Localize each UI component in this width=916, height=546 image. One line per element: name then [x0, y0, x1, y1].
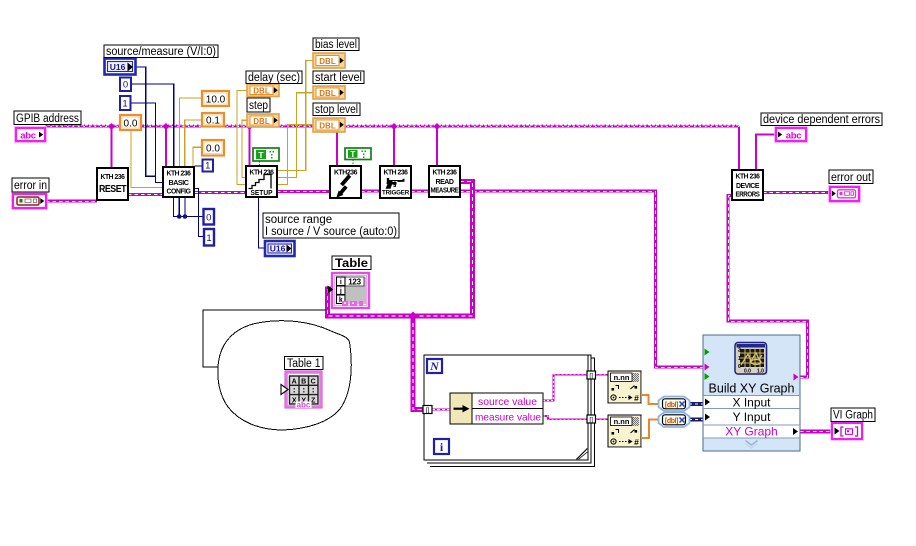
DBL control: start level	[313, 86, 345, 99]
wire: measure value string wire	[543, 416, 587, 419]
DBL constant 0.1	[202, 113, 224, 127]
Table 1 label	[285, 357, 324, 371]
svg-text:[]: []	[589, 417, 593, 424]
svg-text:VI Graph: VI Graph	[833, 410, 873, 422]
svg-text:0.0: 0.0	[206, 144, 220, 155]
U16 constant (source/measure)	[105, 59, 136, 75]
loop tunnels	[423, 371, 596, 424]
svg-text:X Input: X Input	[732, 395, 771, 409]
for loop border	[424, 355, 595, 467]
wire: measurement array (thick) from READ MEASURE to Table and loop	[328, 182, 473, 410]
unbundle by name node	[450, 393, 543, 424]
svg-text:Table 1: Table 1	[287, 358, 321, 370]
DBL constant 0.0 (left)	[120, 115, 141, 130]
svg-text:U16: U16	[110, 62, 126, 72]
n.nn converter 2	[608, 415, 642, 448]
svg-text:[dbl]: [dbl]	[665, 418, 678, 425]
wire: int numeric wires (blue)	[131, 67, 265, 248]
junction dots	[177, 214, 182, 219]
svg-text:N: N	[429, 359, 440, 373]
svg-text:DEVICE: DEVICE	[736, 183, 760, 190]
svg-text:0.0: 0.0	[744, 369, 751, 375]
wire: GPIB drop to BASIC CONFIG	[165, 127, 167, 168]
svg-text:bias level: bias level	[315, 39, 357, 51]
svg-text:CONFIG: CONFIG	[167, 189, 192, 196]
wire: orange DBL wires to converters	[641, 395, 659, 438]
svg-text:DBL: DBL	[253, 87, 270, 96]
VI icon: KTH 236 BASIC CONFIG	[163, 167, 194, 197]
svg-text:A: A	[292, 378, 297, 385]
boolean T constant 1	[253, 148, 279, 161]
wire: GPIB drop to SETUP	[249, 127, 251, 167]
label: stop level	[313, 103, 360, 116]
svg-text:Build XY Graph: Build XY Graph	[709, 382, 795, 396]
svg-text:0.1: 0.1	[206, 116, 220, 127]
wire: GPIB address string wire main run	[45, 127, 739, 171]
svg-text:#: #	[634, 437, 639, 447]
svg-text:i: i	[340, 279, 342, 286]
label: bias level	[313, 38, 359, 51]
svg-text:start level: start level	[315, 72, 362, 84]
svg-text:SETUP: SETUP	[251, 190, 273, 197]
svg-text:[]: []	[426, 407, 430, 414]
page curl on loop	[577, 449, 588, 460]
svg-text:j: j	[339, 288, 342, 295]
DBL control: delay (sec)	[247, 84, 279, 97]
svg-text:[]: []	[589, 373, 593, 380]
svg-text:DBL: DBL	[319, 121, 336, 130]
svg-text:ERRORS: ERRORS	[736, 192, 761, 199]
svg-text:source value: source value	[478, 396, 537, 408]
label: source range	[263, 213, 399, 238]
svg-text:GPIB address: GPIB address	[16, 113, 79, 125]
Table label	[332, 256, 371, 270]
VI icon: KTH236 immediate trigger (lightning)	[330, 166, 361, 198]
svg-text:KTH236: KTH236	[334, 170, 358, 177]
svg-text:1: 1	[122, 99, 127, 110]
Build XY input/output arrows	[705, 349, 710, 356]
VI icon: KTH 236 SETUP	[246, 166, 277, 197]
label: error in	[12, 178, 49, 192]
svg-text:Z: Z	[311, 397, 316, 404]
svg-text:n.nn: n.nn	[614, 373, 630, 382]
svg-text:0: 0	[123, 80, 128, 91]
device dependent errors string indicator	[775, 127, 807, 142]
svg-text:U16: U16	[270, 244, 286, 254]
svg-text:0.0: 0.0	[124, 119, 138, 130]
int constant 0 (below basic config)	[204, 209, 215, 225]
svg-text:Y Input: Y Input	[733, 410, 771, 424]
VI icon: KTH 236 READ MEASURE	[429, 166, 460, 197]
int constant 1 (top)	[120, 96, 131, 110]
svg-text:1.0: 1.0	[757, 369, 764, 375]
svg-text:MEASURE: MEASURE	[431, 188, 460, 195]
VI Graph label	[831, 408, 875, 422]
wire: DBL numeric wires (top constants)	[131, 61, 313, 188]
U16 constant (source range)	[265, 241, 295, 256]
n.nn converter 1 (Fract/Exp String To Number)	[608, 371, 642, 404]
svg-text:[dbl]: [dbl]	[665, 402, 678, 409]
svg-text:T: T	[350, 150, 355, 159]
junction diamond on array wire	[409, 312, 418, 321]
label: device dependent errors	[761, 113, 882, 126]
svg-text:1: 1	[205, 161, 210, 172]
svg-text:abc: abc	[20, 130, 35, 141]
svg-text:RESET: RESET	[99, 183, 127, 195]
wire: dynamic data wires to Build XY Graph	[689, 404, 703, 420]
wire: GPIB drop to TRIGGER	[393, 127, 395, 167]
freehand pencil blob	[203, 310, 351, 430]
svg-text:KTH 236: KTH 236	[384, 170, 409, 177]
wire: error cluster wire	[46, 191, 830, 377]
svg-text:XY Graph: XY Graph	[725, 424, 777, 438]
svg-text:10.0: 10.0	[206, 95, 226, 106]
wire: GPIB drop to RESET	[111, 127, 113, 169]
wire: source value string wire	[543, 375, 608, 420]
svg-text:DBL: DBL	[253, 117, 270, 126]
Table 1 control icon	[281, 371, 322, 410]
svg-text:KTH 236: KTH 236	[433, 170, 458, 177]
svg-text:delay (sec): delay (sec)	[248, 72, 300, 84]
int constant 1 (right of basic config)	[203, 160, 214, 172]
svg-text:#: #	[634, 393, 639, 403]
svg-text:error out: error out	[831, 172, 872, 184]
VI icon: KTH 236 RESET	[97, 168, 128, 200]
svg-text:2: 2	[738, 348, 741, 354]
error in cluster control	[12, 193, 47, 209]
svg-text:step: step	[249, 100, 268, 112]
wire: XY Graph output wire	[800, 430, 832, 434]
svg-text:abc: abc	[297, 401, 311, 410]
DBL control: step	[247, 114, 279, 127]
Table express indicator icon	[328, 273, 370, 308]
VI icon: KTH 236 TRIGGER	[380, 166, 411, 198]
svg-text:KTH 236: KTH 236	[250, 170, 275, 177]
svg-text:123: 123	[348, 278, 361, 287]
junction diamonds on GPIB wire	[108, 123, 441, 130]
svg-text:DBL: DBL	[319, 89, 336, 98]
label: delay (sec)	[246, 71, 302, 84]
int constant 0 (top)	[120, 78, 131, 92]
i terminal	[434, 439, 449, 454]
svg-text:C: C	[311, 378, 316, 385]
svg-text:I source / V source (auto:0): I source / V source (auto:0)	[265, 226, 397, 238]
wire: GPIB drop to READ MEASURE	[436, 127, 438, 167]
label: source/measure	[104, 45, 218, 58]
label: start level	[313, 71, 364, 84]
DBL constant 0.0 (right)	[202, 140, 224, 156]
svg-text:BASIC: BASIC	[169, 180, 189, 187]
svg-text:KTH 236: KTH 236	[736, 174, 761, 181]
DBL control: stop level	[313, 118, 345, 132]
svg-text:device dependent errors: device dependent errors	[763, 114, 880, 126]
wire: cluster element inside loop	[432, 408, 450, 410]
VI Graph indicator	[831, 422, 863, 440]
Build XY Graph express VI	[703, 335, 800, 451]
wire: device dependent errors string wire	[756, 135, 776, 171]
svg-text:source/measure (V/I:0): source/measure (V/I:0)	[106, 46, 216, 58]
GPIB address string control	[15, 127, 46, 142]
svg-text:Table: Table	[335, 258, 368, 270]
svg-text:KTH 236: KTH 236	[167, 171, 192, 178]
svg-text:error in: error in	[14, 180, 47, 192]
svg-text:B: B	[301, 378, 306, 385]
svg-text:stop level: stop level	[315, 104, 358, 116]
convert to dynamic data bullet 1	[659, 397, 690, 412]
boolean T constant 2	[345, 148, 371, 160]
error out cluster indicator	[829, 186, 860, 202]
convert to dynamic data bullet 2	[659, 413, 690, 428]
int constant 1 (below basic config)	[204, 229, 214, 246]
svg-text:KTH 236: KTH 236	[101, 174, 126, 181]
Build XY icon	[737, 344, 768, 375]
label: step	[247, 98, 270, 112]
svg-text:n.nn: n.nn	[614, 417, 630, 426]
svg-text:TRIGGER: TRIGGER	[382, 190, 409, 197]
svg-text:0: 0	[738, 364, 741, 370]
svg-text:T: T	[258, 150, 264, 160]
svg-text:1: 1	[206, 233, 211, 244]
svg-text:1: 1	[738, 356, 741, 362]
N terminal	[427, 359, 442, 373]
wire: boolean dotted drops from T constants	[260, 160, 354, 167]
svg-text:measure value: measure value	[475, 411, 541, 423]
label: error out	[829, 170, 873, 184]
svg-text:abc: abc	[786, 130, 801, 141]
DBL control: bias level	[313, 53, 345, 68]
DBL constant 10.0	[202, 91, 229, 106]
svg-text:READ: READ	[435, 179, 453, 186]
label: GPIB address	[14, 111, 81, 125]
svg-text:DBL: DBL	[319, 57, 336, 66]
svg-text:0: 0	[206, 213, 211, 224]
VI icon: KTH 236 DEVICE ERRORS	[732, 170, 763, 200]
wire: GPIB drop to lightning VI	[336, 127, 338, 167]
svg-text:source range: source range	[265, 214, 332, 226]
